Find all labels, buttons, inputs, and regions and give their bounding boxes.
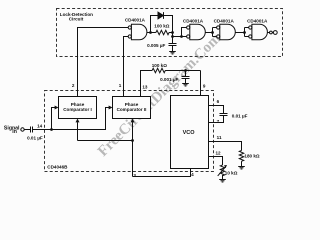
- VCO box: [171, 96, 209, 169]
- junction node A dot: [149, 31, 152, 34]
- ground symbol for R3: [238, 167, 245, 170]
- NOR gate U1B (CD4001A) body: [190, 24, 205, 40]
- gate U1B input tie wire: [182, 28, 187, 37]
- potentiometer R4 10 kOhm vertical zigzag: [220, 165, 224, 176]
- watermark FreeCircuitDiagram.Com: [95, 30, 224, 159]
- output terminal circle: [273, 31, 277, 35]
- svg-text:0.01 µF: 0.01 µF: [27, 136, 43, 141]
- svg-text:0.005 µF: 0.005 µF: [147, 43, 165, 48]
- wire pin 2: phase comp I output up to gate U1A upper input: [78, 28, 129, 97]
- svg-text:CD4001A: CD4001A: [125, 18, 146, 23]
- arrowhead into phase comp II bottom: [131, 119, 135, 123]
- svg-text:1: 1: [119, 83, 122, 88]
- wire pin 12 to potentiometer: [209, 157, 223, 166]
- junction dot U1C tie: [211, 31, 214, 34]
- potentiometer wiper arrow: [218, 167, 226, 176]
- wire U1C output to gate U1D tie: [235, 32, 244, 34]
- U1B input bubbles: [187, 26, 190, 29]
- svg-text:CD4001A: CD4001A: [247, 18, 268, 23]
- wire pin 13 up to filter line: [141, 71, 153, 97]
- junction dot signal node: [50, 128, 53, 131]
- wire pin 1: phase comp II top up to gate U1A lower input: [124, 37, 129, 97]
- svg-text:13: 13: [142, 84, 148, 89]
- svg-text:100 kΩ: 100 kΩ: [152, 63, 167, 68]
- junction dot feedback node: [131, 139, 134, 142]
- junction node B dot: [171, 31, 174, 34]
- svg-text:Circuit: Circuit: [69, 17, 84, 22]
- wire pin 3 down to loop: [132, 141, 134, 177]
- wire C4 to pin 7: [209, 116, 224, 123]
- capacitor C1 0.005uF lead: [172, 37, 174, 44]
- resistor R3 180 kOhm vertical zigzag: [239, 151, 243, 162]
- svg-text:7: 7: [217, 119, 220, 124]
- wire pin 6 stub: [209, 106, 224, 114]
- svg-text:Comparator II: Comparator II: [117, 107, 147, 112]
- svg-text:0.01 µF: 0.01 µF: [232, 113, 248, 118]
- svg-text:10 kΩ: 10 kΩ: [225, 170, 238, 175]
- diode D1 branch wire: [151, 16, 173, 33]
- U1D input bubbles: [249, 26, 252, 29]
- wire C3 to junction node: [33, 129, 52, 131]
- wire signal node right and up to phase comp II input: [52, 108, 110, 130]
- wire R2 to pin 9: [165, 70, 200, 72]
- svg-text:4: 4: [191, 172, 194, 177]
- NOR gate U1C (CD4001A) body: [220, 24, 235, 40]
- svg-text:CD4001A: CD4001A: [183, 18, 204, 23]
- svg-text:2: 2: [72, 83, 75, 88]
- wire bubble to terminal: [272, 32, 273, 34]
- wire terminal to C3: [24, 129, 30, 131]
- svg-text:9: 9: [203, 83, 206, 88]
- wire U1D output stub: [267, 32, 269, 34]
- signal input terminal: [21, 128, 24, 131]
- arrowhead into phase comp I left: [55, 106, 59, 110]
- junction dot U1D tie: [243, 31, 246, 34]
- capacitor C1 plates: [169, 44, 177, 46]
- svg-text:11: 11: [217, 135, 222, 140]
- wire U1B output to gate U1C tie: [205, 32, 212, 34]
- ground symbol for C2: [182, 84, 189, 87]
- wire R1 to node B: [169, 32, 173, 34]
- svg-text:CD4046B: CD4046B: [47, 165, 68, 170]
- capacitor C2 plates: [182, 77, 190, 79]
- svg-text:CD4001A: CD4001A: [214, 18, 235, 23]
- diode D1 symbol: [158, 12, 163, 19]
- wire pin 9 down to VCO top: [200, 71, 202, 96]
- diode D1 cathode bar: [163, 12, 165, 19]
- svg-text:100 kΩ: 100 kΩ: [154, 23, 169, 28]
- junction dot node B lower: [171, 35, 174, 38]
- wire potentiometer to ground: [222, 175, 224, 180]
- wire pin 3 to pin 4 loop into VCO bottom: [133, 169, 191, 177]
- NOR gate U1D (CD4001A) body: [252, 24, 267, 40]
- wire node B down to gate U1B input level: [173, 33, 182, 37]
- wire U1A output to resistor R1: [147, 32, 156, 34]
- U1A input bubbles: [128, 26, 131, 29]
- wire pin 11 to resistor R3: [209, 142, 242, 151]
- svg-text:Comparator I: Comparator I: [63, 107, 92, 112]
- wire signal node up to phase comp I input: [52, 108, 56, 130]
- phase comparator II box: [113, 97, 151, 119]
- svg-text:3: 3: [133, 173, 136, 178]
- svg-text:12: 12: [215, 150, 221, 155]
- svg-text:In: In: [12, 129, 17, 135]
- gate U1C input tie wire: [213, 28, 217, 37]
- wire phase comp II bottom input: [132, 122, 134, 140]
- ground symbol for potentiometer: [219, 180, 226, 183]
- capacitor C3 0.01uF series plates: [31, 127, 33, 133]
- gate U1D input tie wire: [245, 28, 249, 37]
- wire R3 to ground: [241, 161, 243, 166]
- capacitor C2 0.001uF lead: [185, 71, 187, 77]
- svg-text:180 kΩ: 180 kΩ: [244, 154, 259, 159]
- feedback wire horizontal: [78, 140, 133, 142]
- junction dot filter node: [184, 69, 187, 72]
- resistor R1 100 kOhm horizontal zigzag: [156, 30, 169, 34]
- lock-detection dashed box: [57, 9, 283, 57]
- wire phase comp I bottom input from feedback line: [77, 122, 79, 140]
- CD4046B dashed box: [45, 91, 214, 172]
- U1C input bubbles: [217, 26, 220, 29]
- ground symbol for C1: [169, 52, 176, 55]
- phase comparator I box: [59, 97, 97, 119]
- arrowhead into phase comp II left: [109, 106, 113, 110]
- arrowhead into phase comp I bottom: [76, 119, 80, 123]
- svg-text:14: 14: [37, 123, 43, 128]
- wire C1 to ground: [172, 46, 174, 52]
- NOR gate U1A (CD4001A) body: [131, 24, 146, 40]
- wire C2 to ground: [185, 79, 187, 84]
- capacitor C4 0.01uF plates: [220, 114, 228, 116]
- junction dot at U1B input tie: [180, 35, 183, 38]
- resistor R2 100 kOhm horizontal zigzag: [152, 68, 165, 72]
- svg-text:VCO: VCO: [183, 130, 196, 136]
- svg-text:0.001 µF: 0.001 µF: [160, 77, 178, 82]
- U1D output inversion bubble: [270, 31, 273, 34]
- svg-text:6: 6: [217, 99, 220, 104]
